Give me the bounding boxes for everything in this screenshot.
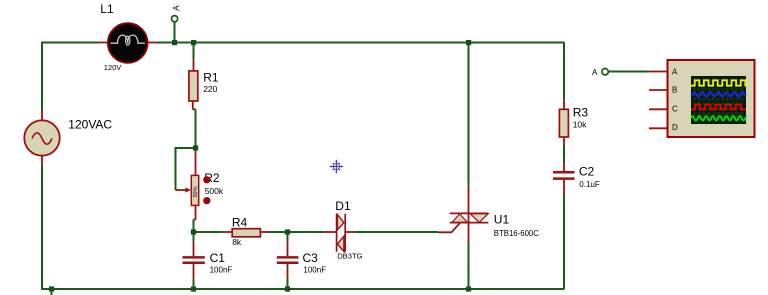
svg-text:A: A — [592, 68, 598, 77]
svg-text:D: D — [672, 123, 678, 132]
svg-text:C2: C2 — [579, 165, 595, 179]
svg-text:R1: R1 — [203, 70, 219, 84]
svg-text:A: A — [172, 5, 181, 11]
svg-text:100nF: 100nF — [303, 266, 326, 275]
svg-text:50%: 50% — [193, 186, 199, 197]
svg-text:BTB16-600C: BTB16-600C — [494, 229, 539, 238]
svg-text:R4: R4 — [232, 216, 248, 230]
svg-text:10k: 10k — [573, 120, 587, 130]
svg-text:C1: C1 — [210, 251, 226, 265]
svg-text:B: B — [672, 86, 677, 95]
svg-text:500k: 500k — [205, 186, 224, 196]
svg-text:DB3TG: DB3TG — [337, 252, 362, 261]
svg-text:C3: C3 — [303, 251, 319, 265]
svg-text:D1: D1 — [335, 199, 351, 213]
svg-text:100nF: 100nF — [210, 266, 233, 275]
svg-text:0.1uF: 0.1uF — [579, 180, 600, 189]
svg-text:A: A — [672, 68, 678, 77]
svg-text:120VAC: 120VAC — [68, 118, 112, 132]
svg-text:8k: 8k — [232, 237, 242, 247]
svg-text:R3: R3 — [573, 106, 589, 120]
svg-text:C: C — [672, 105, 678, 114]
svg-text:220: 220 — [203, 84, 217, 94]
svg-text:120V: 120V — [104, 63, 122, 72]
svg-text:U1: U1 — [494, 213, 510, 227]
svg-text:L1: L1 — [100, 2, 114, 16]
